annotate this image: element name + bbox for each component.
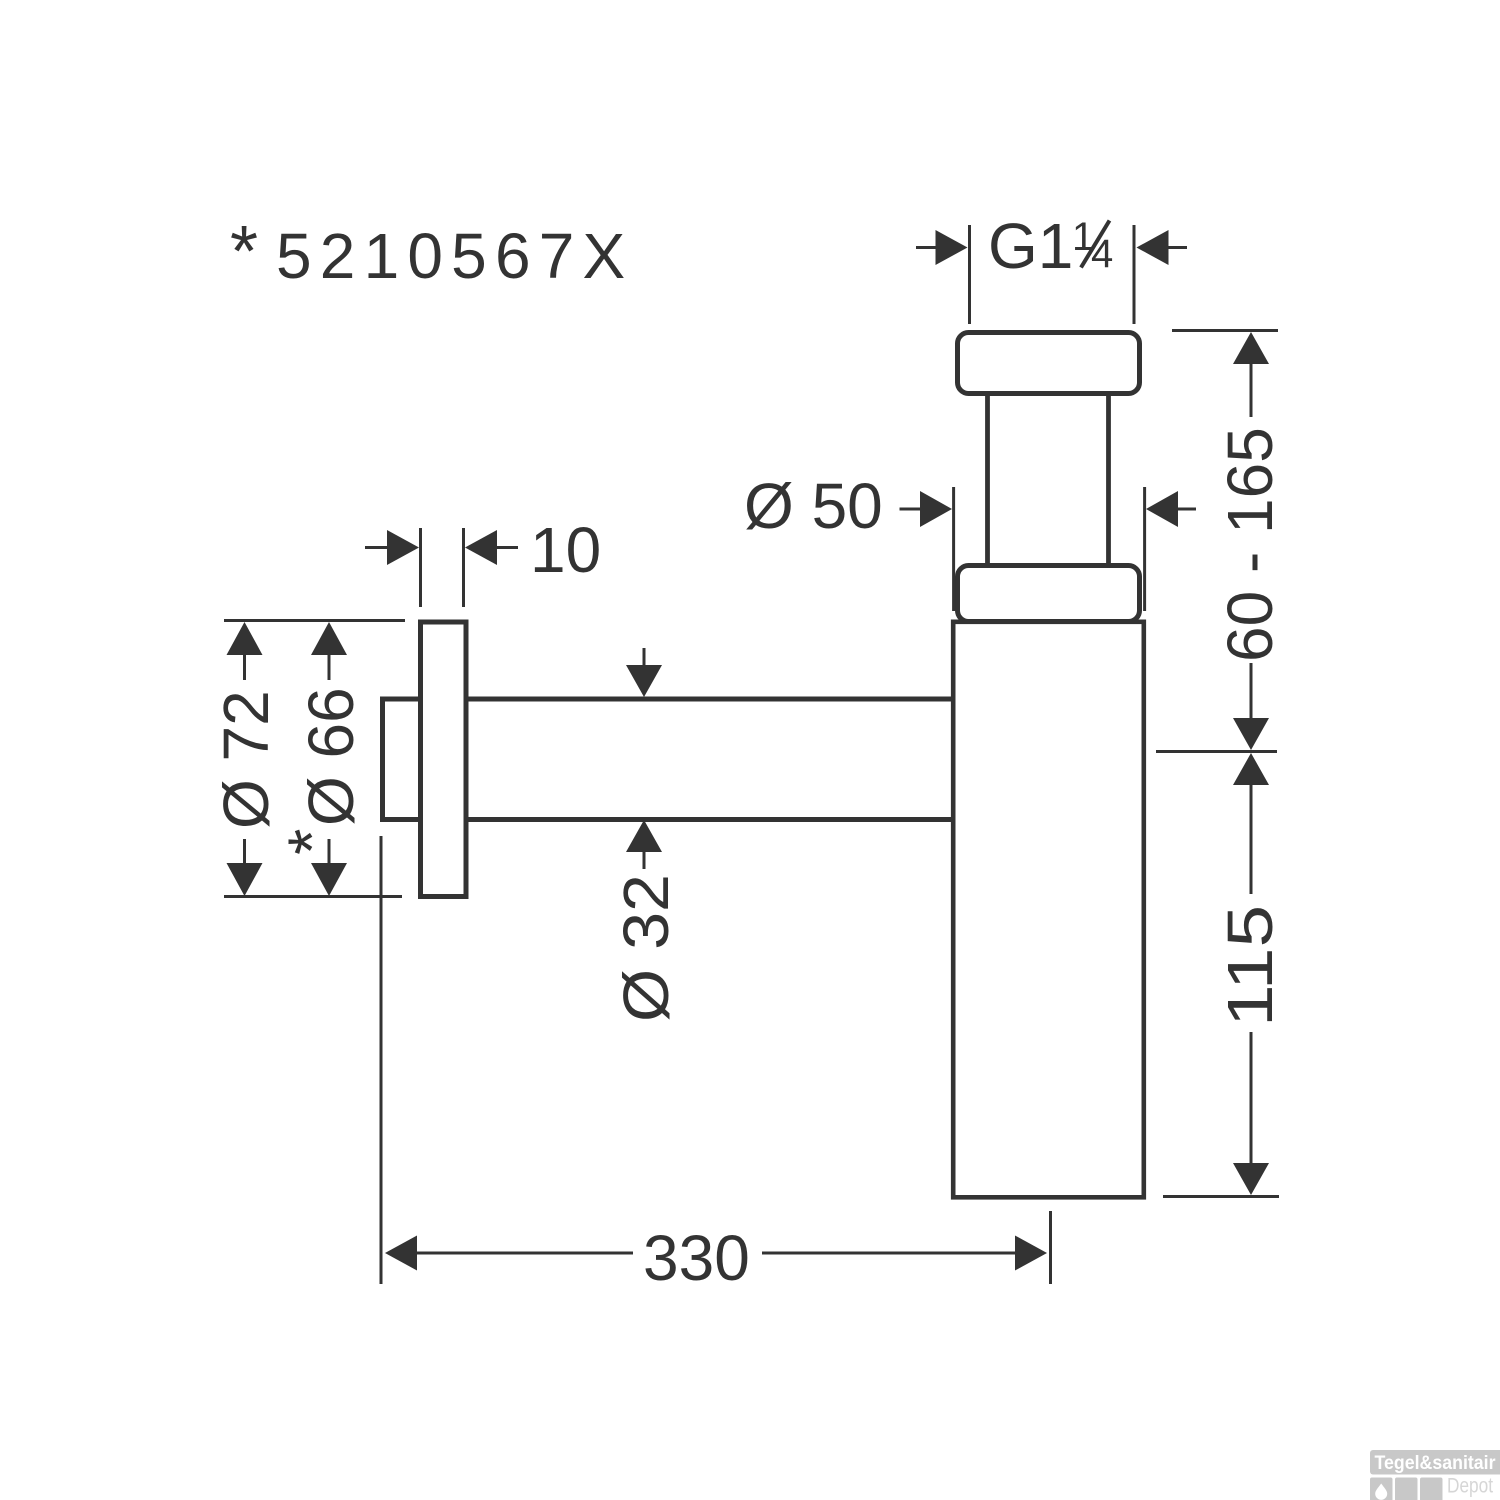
svg-text:330: 330 [643,1222,750,1294]
dimension 330: left extension line [380,836,383,1284]
svg-text:10: 10 [530,514,601,586]
wall flange (rosette) [421,622,467,897]
dimension 60-165: bottom arrow (down) [1233,718,1269,750]
top cap nut [958,333,1140,394]
svg-text:Depot: Depot [1447,1475,1493,1498]
svg-text:*: * [230,212,258,292]
dimension D72: bottom arrow (down) [243,839,246,864]
svg-text:4: 4 [1091,232,1113,276]
dimension 10: left extension line [419,528,422,607]
svg-text:Ø 66: Ø 66 [295,687,367,826]
vertical inlet pipe right line [1106,394,1111,566]
watermark drop icon [1375,1484,1387,1500]
dimension 10: label [530,514,601,586]
dimension 330: label [643,1222,750,1294]
dimension D72: label [210,690,282,829]
vertical inlet pipe left line [985,394,990,566]
svg-text:115: 115 [1214,905,1286,1027]
collar nut [958,566,1140,622]
dimension D66: bottom arrow (down) [328,839,331,864]
dimension D66: top arrow (up) [311,622,347,655]
svg-text:Ø 50: Ø 50 [744,470,883,542]
dimension D32: top arrow (down) [643,648,646,667]
dimension D72: top arrow (up) [227,622,263,655]
dimension 115: top arrow (up) [1233,753,1269,785]
wire: horizontal pipe top line [380,697,953,702]
dimension 330: right arrow [762,1252,1016,1255]
dimension 10: right arrow [465,530,497,565]
dimension D32: bottom arrow (up) [626,820,662,852]
svg-text:Tegel&sanitair: Tegel&sanitair [1375,1452,1496,1474]
dimension middle tick line [1156,750,1277,753]
svg-text:*: * [274,829,350,855]
wire: horizontal pipe bottom line [380,817,953,822]
dimension 330: left arrow [385,1236,417,1271]
trap body [953,622,1144,1198]
dimension D66: label [274,687,367,855]
dimension D50: label [744,470,883,542]
dimension D50: right arrow [1146,491,1178,527]
dimension G1 1/4: label [988,210,1113,282]
watermark squares row [1370,1478,1443,1500]
dimension D72/D66: top tick line [224,619,405,622]
dimension D72/D66: bottom tick line [224,895,402,898]
dimension 115: bottom arrow (down) [1233,1163,1269,1195]
svg-text:60 - 165: 60 - 165 [1214,427,1286,662]
dimension 60-165: top tick line [1172,329,1278,332]
wire: horizontal pipe left end cap [380,697,385,823]
dimension 60-165: label [1214,427,1286,662]
dimension G1 1/4: right extension line [1133,225,1136,324]
dimension 115: bottom tick line [1163,1195,1279,1198]
svg-text:5210567X: 5210567X [276,220,633,292]
dimension 115: lower line [1250,1032,1253,1164]
svg-text:Ø 72: Ø 72 [210,690,282,829]
svg-text:Ø 32: Ø 32 [610,874,682,1022]
dimension 60-165: top arrow (up) [1233,332,1269,364]
dimension G1 1/4: right arrow [1137,230,1169,265]
dimension 60-165: lower line [1250,663,1253,719]
dimension G1 1/4: left arrow [916,246,938,249]
dimension G1 1/4: left extension line [968,225,971,324]
dimension D32: label [610,874,682,1022]
dimension 330: right extension line [1049,1211,1052,1284]
dimension 10: right extension line [462,528,465,607]
svg-text:G1: G1 [988,210,1073,282]
dimension 10: left arrow [365,546,390,549]
dimension 115: label [1214,905,1286,1027]
article number label *5210567X [230,212,633,292]
dimension D50: left arrow [900,508,923,511]
dimension D50: left extension line [952,487,955,611]
watermark banner Tegel&sanitair [1370,1450,1500,1475]
dimension D50: right extension line [1143,487,1146,611]
